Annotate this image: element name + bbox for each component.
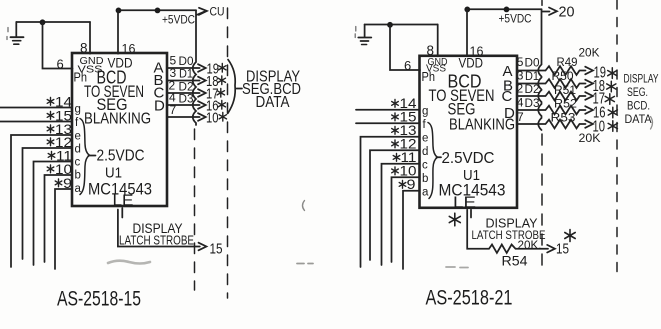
svg-text:BLANKING: BLANKING [84, 111, 151, 128]
svg-text:b: b [75, 170, 81, 182]
svg-text:15: 15 [556, 241, 569, 258]
input wire *12 to pin d (right) [370, 150, 420, 260]
svg-text:C: C [502, 88, 513, 105]
faint erased KEY mark [108, 261, 150, 264]
output wire pin 3 with resistor R50 to connector 18 [517, 79, 593, 88]
svg-text:D: D [504, 105, 515, 122]
svg-text:20: 20 [559, 5, 575, 21]
svg-text:R49: R49 [557, 55, 578, 69]
stray arc mark right edge [651, 117, 653, 130]
IC U1 MC14543 body (right) [420, 56, 518, 208]
input wire *14 to pin g [0, 107, 72, 109]
svg-text:U1: U1 [105, 165, 122, 182]
LE pin stub (right) [470, 210, 472, 218]
wire: ground to VSS net [16, 21, 90, 23]
star mark 17 (right) [605, 94, 614, 105]
svg-text:b: b [422, 173, 428, 185]
brace dash to label [237, 88, 243, 90]
output wire pin 7 (blanking) to connector 10 [167, 113, 206, 121]
star mark 10 (right) [608, 121, 617, 132]
svg-text:7: 7 [517, 110, 524, 124]
stray tick marks left of ground [7, 28, 8, 40]
svg-text:R52: R52 [554, 97, 577, 111]
input wire *13 to pin e [11, 135, 72, 267]
svg-text:SEG.: SEG. [627, 87, 648, 99]
star mark *12 (right) [392, 140, 399, 148]
svg-text:D1: D1 [179, 69, 193, 81]
output wire pin 3 (B/D1) to connector 18 [167, 77, 206, 85]
svg-text:6: 6 [57, 57, 64, 72]
output wire pin 4 (D/D3) to connector 16 [167, 101, 206, 109]
svg-text:LE: LE [453, 195, 476, 212]
ground symbol (left circuit) [11, 22, 24, 44]
connector boundary dashed line (right) [616, 0, 618, 280]
dashed rail continuation (board boundary, right) [541, 134, 543, 272]
stray tick mark left of ground [354, 27, 357, 38]
svg-text:g: g [75, 104, 81, 116]
svg-text:D: D [154, 98, 165, 115]
input wire *10 to pin b (right) [392, 177, 420, 262]
output wire pin 2 with resistor R51 to connector 17 [517, 92, 593, 101]
wire: VDD drop to pin 16 [117, 10, 119, 54]
svg-text:5: 5 [517, 55, 524, 69]
svg-text:a: a [422, 187, 429, 199]
2.5VDC brace [80, 119, 90, 195]
star mark *13 (right) [392, 127, 399, 135]
svg-text:D2: D2 [525, 84, 540, 96]
svg-text:R53: R53 [551, 111, 576, 125]
svg-text:AS-2518-21: AS-2518-21 [426, 287, 513, 310]
svg-text:2.5VDC: 2.5VDC [442, 150, 495, 167]
wire: +5VDC rail horizontal [118, 9, 196, 11]
DISPLAY SEG. BCD. DATA label (right) [624, 74, 659, 127]
junction dot on +5VDC rail mid (right) [504, 6, 510, 12]
svg-text:6: 6 [404, 58, 411, 73]
svg-text:R54: R54 [502, 254, 529, 269]
svg-text:D1: D1 [525, 71, 539, 83]
star mark 10 [219, 113, 226, 122]
svg-text:20K: 20K [579, 131, 601, 145]
svg-text:10: 10 [206, 110, 219, 127]
svg-text:LATCH STROBE: LATCH STROBE [119, 233, 194, 248]
star mark *10 [47, 165, 54, 173]
svg-text:9: 9 [63, 175, 72, 191]
DISPLAY SEG.BCD DATA label [242, 69, 301, 112]
star mark 16 [218, 101, 225, 110]
LE pin stub [121, 208, 123, 218]
junction dot on +5VDC rail (right) [464, 6, 470, 12]
junction dot on +5VDC rail [116, 7, 122, 13]
svg-text:AS-2518-15: AS-2518-15 [57, 288, 141, 311]
op IC U1 MC14543 body [72, 53, 167, 206]
input wire *10 to pin b [45, 175, 73, 262]
star mark *15 [47, 112, 54, 120]
svg-text:d: d [422, 146, 428, 158]
svg-text:3: 3 [517, 69, 524, 83]
svg-text:4: 4 [517, 96, 524, 110]
junction dot: VSS node (right) [387, 22, 393, 28]
2.5VDC dash (right) [437, 156, 442, 158]
star mark 19 (right) [608, 68, 617, 79]
wire: VDD drop to pin 16 (right) [466, 9, 468, 56]
svg-text:7: 7 [170, 103, 177, 117]
wire: latch strobe with resistor R54 to connector 15 [467, 210, 555, 253]
star mark 16 (right) [608, 107, 617, 118]
wire: VSS net down to pin 8 [89, 22, 91, 54]
svg-text:D0: D0 [179, 56, 194, 68]
wire: +5VDC rail horizontal (right) [467, 8, 542, 10]
output wire pin 4 with resistor R52 to connector 16 [517, 106, 593, 115]
star mark 17 [217, 89, 224, 98]
arrow to connector pin CU [196, 8, 207, 15]
2.5VDC dash [89, 155, 96, 157]
svg-text:CU: CU [210, 5, 225, 19]
star mark *12 [47, 138, 54, 146]
brace grouping BCD data lines [228, 60, 235, 114]
svg-text:D3: D3 [179, 94, 194, 106]
star mark above 15 (right) [565, 230, 575, 242]
junction dot on +5VDC rail (mid) [155, 7, 161, 13]
star mark *11 [48, 152, 55, 160]
svg-text:9: 9 [407, 176, 416, 192]
svg-text:D2: D2 [179, 82, 194, 94]
svg-text:LE: LE [113, 193, 134, 210]
star mark *14 [47, 98, 54, 106]
input wire *11 to pin c (right) [382, 164, 420, 265]
wire: VSS node down to Ph pin 6 (right) [390, 25, 420, 70]
svg-text:15: 15 [210, 241, 223, 258]
wire: latch strobe from LE to connector 15 [118, 210, 206, 251]
svg-text:+5VDC: +5VDC [162, 15, 195, 27]
svg-text:DATA: DATA [256, 94, 291, 111]
svg-text:+5VDC: +5VDC [499, 14, 532, 26]
output wire pin 2 (C/D2) to connector 17 [167, 89, 206, 97]
input wire *11 to pin c [34, 162, 73, 266]
faint mark near boundary [297, 263, 313, 265]
svg-text:20K.: 20K. [518, 240, 542, 252]
input wire *15 to pin f (right) [356, 122, 420, 124]
star mark *15 (right) [392, 113, 399, 121]
stray arc mark [303, 201, 305, 211]
+5VDC rail vertical with wire hops (right) [538, 9, 541, 130]
svg-text:2: 2 [517, 82, 524, 96]
wire: VSS net down to pin 8 (right) [437, 25, 439, 57]
svg-text:2.5VDC: 2.5VDC [97, 148, 145, 165]
2.5VDC brace (right) [428, 123, 438, 199]
svg-text:D3: D3 [525, 98, 540, 110]
input wire *15 to pin f [0, 121, 72, 123]
svg-text:R50: R50 [552, 69, 574, 83]
junction dot: VSS node [40, 19, 46, 25]
svg-text:R51: R51 [554, 83, 576, 97]
svg-text:Ph: Ph [422, 70, 436, 84]
svg-text:e: e [75, 131, 81, 143]
star mark *9 [55, 179, 62, 187]
output wire pin 7 with resistor R53 to connector 10 [517, 120, 593, 129]
wire: ground to VSS net (right) [365, 24, 438, 26]
star mark *13 [47, 125, 54, 133]
output wire pin 5 with resistor R49 to connector 19 [517, 66, 593, 75]
input wire *9 to pin a (right) [403, 191, 420, 269]
star mark *10 (right) [392, 167, 399, 175]
+5VDC rail vertical with wire hops [193, 10, 196, 125]
star mark 18 (right) [607, 81, 616, 92]
star mark *11 (right) [393, 154, 400, 162]
svg-text:DISPLAY: DISPLAY [624, 74, 659, 86]
star mark 19 [219, 64, 226, 73]
star mark *14 (right) [392, 100, 399, 108]
top dash of boundary above rail [541, 1, 543, 6]
svg-text:VDD: VDD [459, 55, 484, 71]
wire: VSS node down to Ph pin 6 [43, 22, 73, 68]
ground symbol (right circuit) [358, 25, 371, 45]
svg-text:BCD.: BCD. [627, 101, 650, 113]
input wire *14 to pin g (right) [356, 109, 420, 111]
arrow to connector pin 20 [542, 8, 557, 16]
star mark 18 [218, 76, 225, 85]
svg-text:e: e [422, 133, 428, 145]
svg-text:d: d [75, 144, 81, 156]
connector boundary dashed line [227, 8, 229, 298]
dashed rail continuation (board boundary) [194, 129, 196, 290]
input wire *12 to pin d [23, 148, 73, 259]
svg-text:c: c [75, 157, 81, 169]
star mark near LE [449, 213, 460, 226]
star mark *9 (right) [399, 181, 406, 189]
input wire *9 to pin a [55, 189, 72, 269]
input wire *13 to pin e (right) [361, 137, 420, 267]
svg-text:c: c [422, 160, 428, 172]
svg-text:DATA: DATA [625, 114, 652, 126]
svg-text:D0: D0 [525, 58, 540, 70]
output wire pin 5 (A/D0) to connector 19 [167, 64, 206, 72]
svg-text:g: g [422, 106, 428, 118]
svg-text:20K: 20K [579, 46, 600, 60]
faint marks bottom (right circuit) [446, 266, 468, 269]
svg-text:a: a [75, 183, 82, 195]
